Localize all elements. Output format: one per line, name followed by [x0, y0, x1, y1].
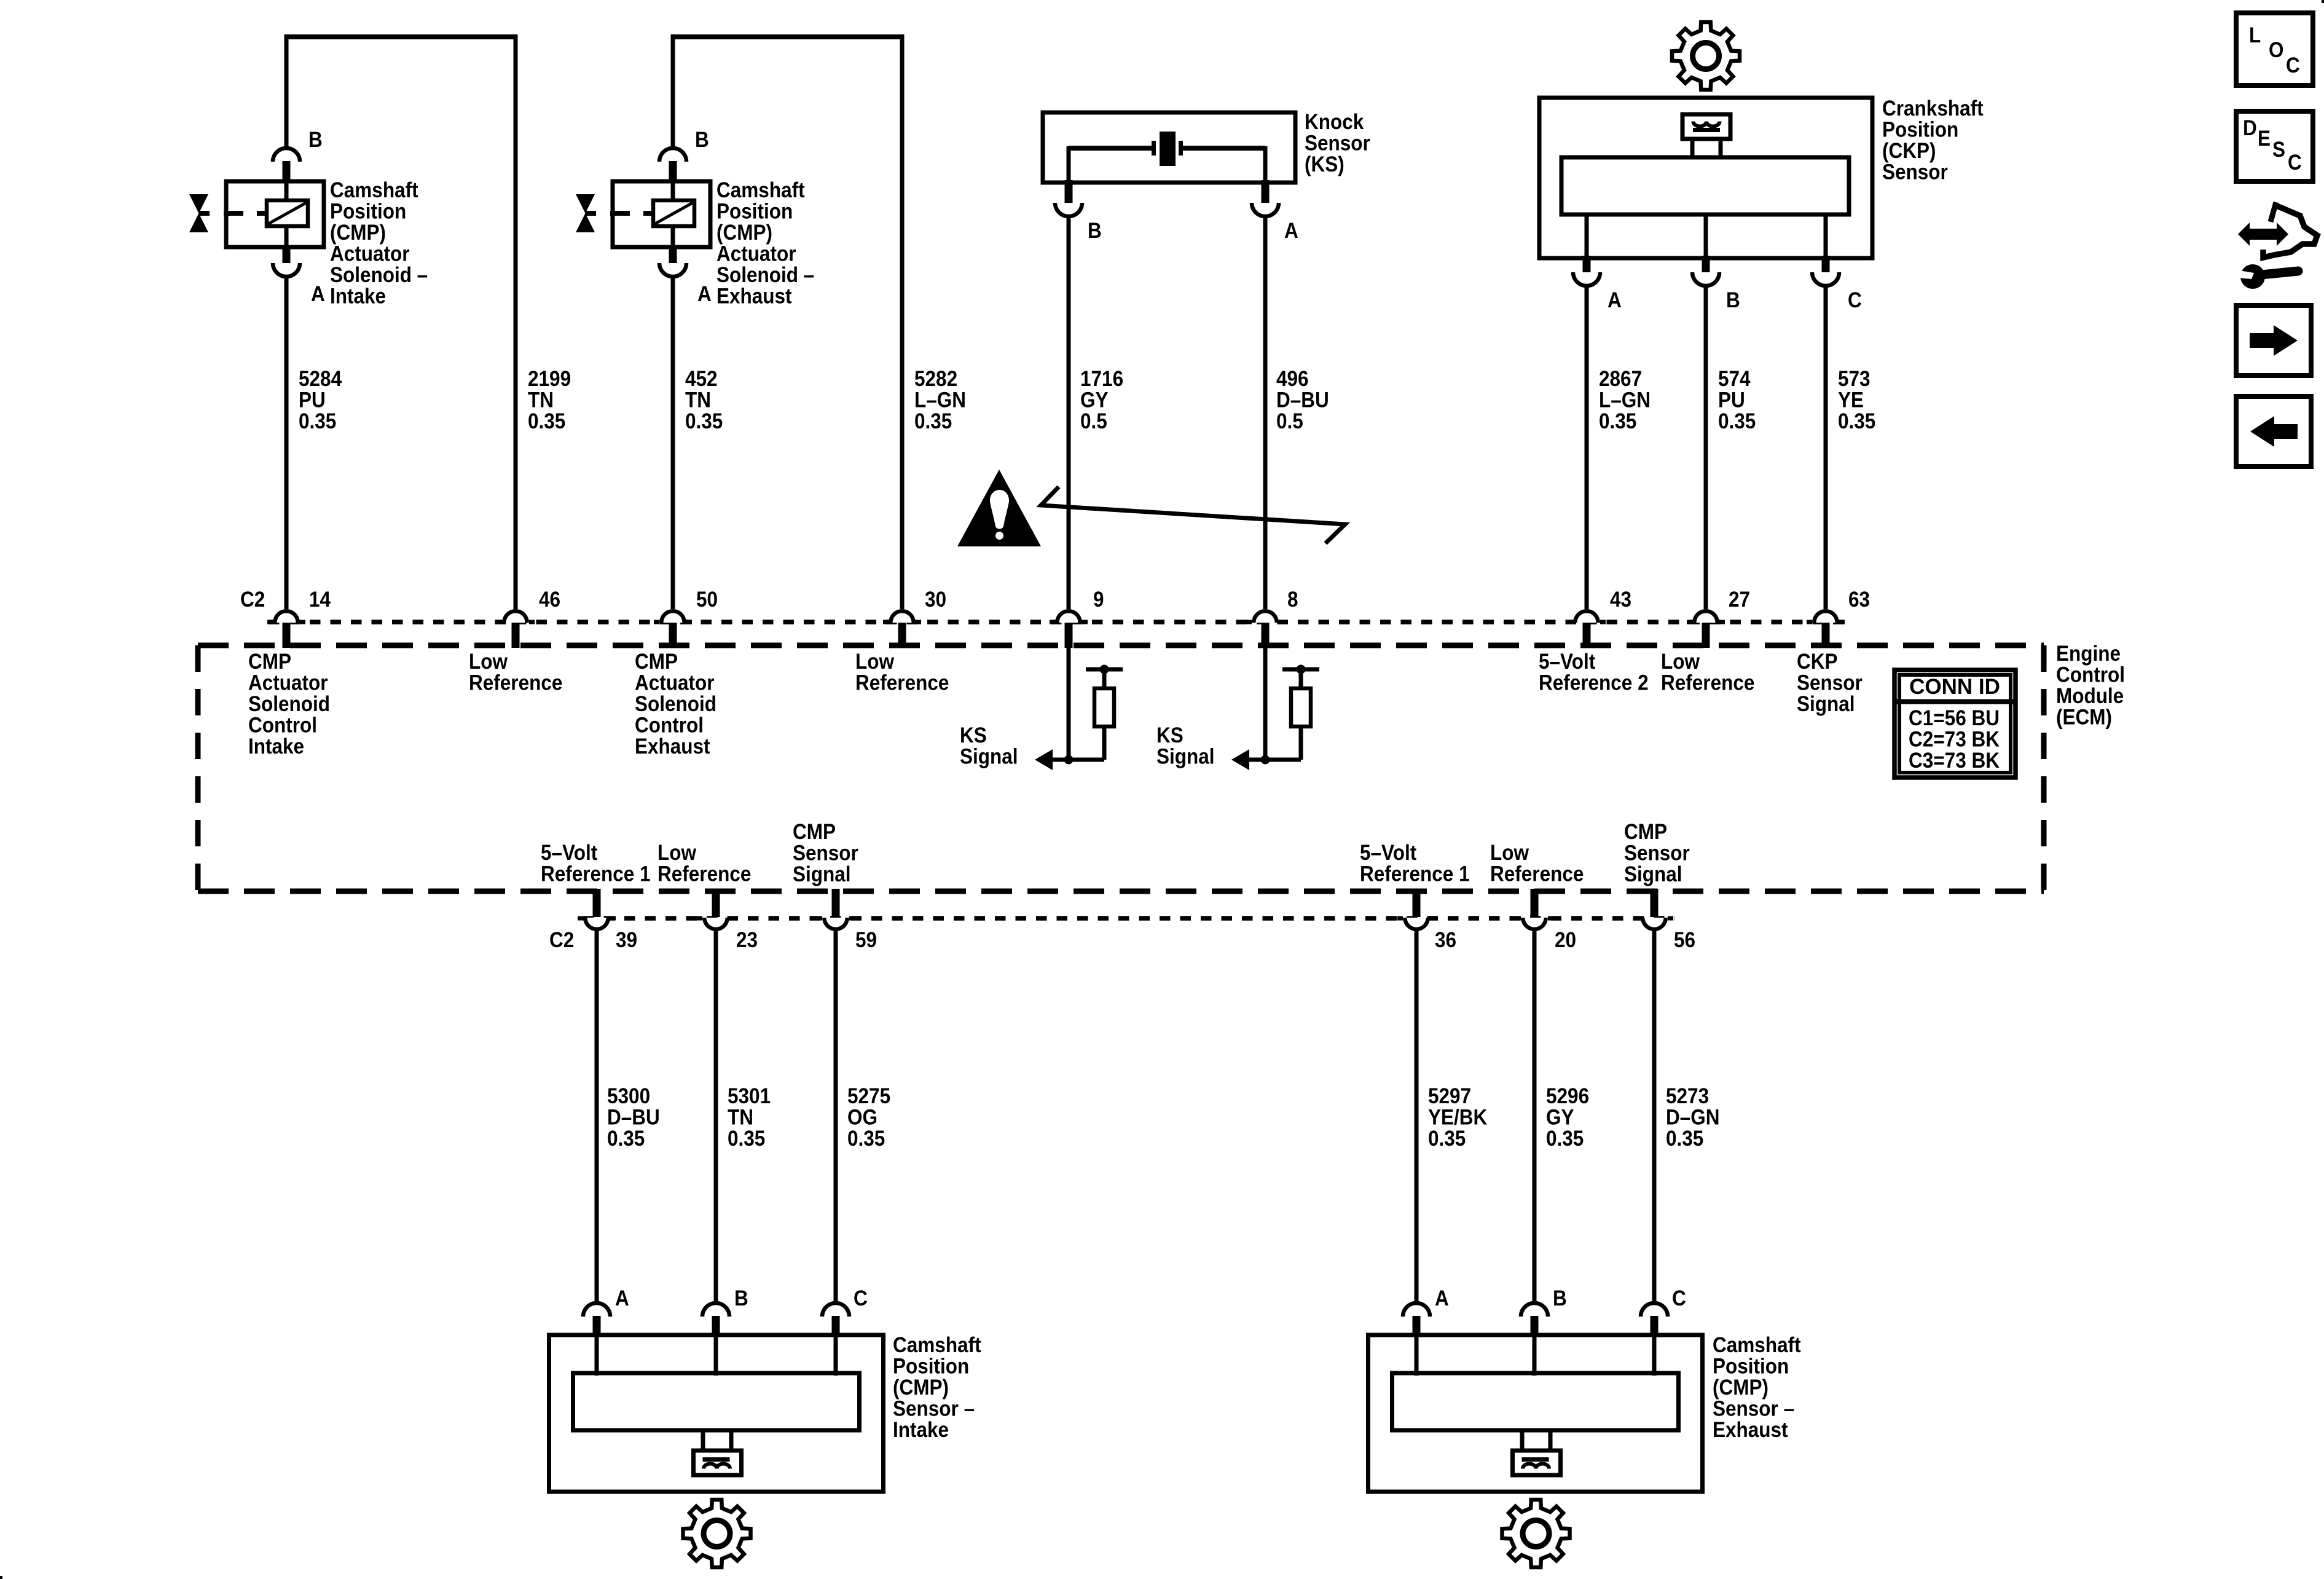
svg-text:Camshaft: Camshaft	[716, 178, 805, 202]
ECM bias rail pin 9	[1086, 667, 1123, 672]
svg-text:Control: Control	[635, 714, 704, 738]
CKP connector squiggle	[1694, 122, 1720, 127]
pin stub A CKP sensor	[1583, 256, 1591, 272]
label engine control module	[2056, 642, 2125, 730]
CMP sensor intake pin label C	[854, 1286, 868, 1310]
pin stub A solenoid intake	[283, 245, 291, 263]
pin stub A solenoid exhaust	[669, 245, 677, 263]
svg-text:Sensor: Sensor	[1882, 160, 1948, 184]
CKP sensor lead A	[1585, 216, 1589, 258]
svg-text:0.35: 0.35	[1546, 1127, 1584, 1151]
connector arc pin A knock sensor	[1252, 203, 1279, 216]
wire tag 5301	[728, 1084, 771, 1151]
solenoid intake internal wire	[285, 183, 289, 245]
svg-text:5300: 5300	[607, 1084, 650, 1108]
svg-text:CMP: CMP	[248, 650, 291, 674]
svg-text:C2=73 BK: C2=73 BK	[1909, 728, 2000, 752]
ECM pin 50 number	[696, 588, 718, 612]
label camshaft position solenoid Intake	[330, 178, 428, 309]
svg-text:C: C	[1672, 1286, 1686, 1310]
pin stub C CKP sensor	[1822, 256, 1830, 272]
svg-text:Signal: Signal	[960, 745, 1018, 769]
ECM pin 59 number	[855, 928, 877, 952]
svg-text:O: O	[2269, 38, 2284, 62]
wire 496 KS signal A	[1263, 215, 1268, 609]
ECM pin 36 stub	[1413, 889, 1421, 917]
ECM pin 50 stub	[669, 623, 677, 648]
CMP sensor intake pin label B	[734, 1286, 748, 1310]
crankshaft position sensor box	[1539, 98, 1872, 258]
ECM pin 20 number	[1555, 928, 1576, 952]
svg-text:PU: PU	[299, 388, 326, 412]
svg-text:(ECM): (ECM)	[2056, 706, 2112, 730]
label CMP actuator solenoid control exhaust	[635, 650, 716, 758]
ECM pin 39 stub	[593, 889, 601, 917]
svg-text:(KS): (KS)	[1305, 152, 1345, 176]
ECM dashed border left	[195, 645, 201, 891]
pin stub A knock sensor	[1262, 180, 1270, 203]
pin label B solenoid exhaust	[695, 128, 709, 152]
CMP sensor intake connector element box	[694, 1451, 742, 1475]
svg-text:C3=73 BK: C3=73 BK	[1909, 749, 2000, 773]
svg-text:5282: 5282	[914, 367, 957, 391]
pin stub B CKP sensor	[1702, 256, 1710, 272]
svg-text:Position: Position	[716, 200, 793, 224]
svg-text:B: B	[1726, 288, 1740, 312]
CONN ID table box	[1894, 670, 2016, 778]
solenoid exhaust valve symbol	[576, 194, 595, 232]
junction dot node pin 8	[1261, 755, 1270, 765]
ECM pin 56 number	[1674, 928, 1695, 952]
svg-text:B: B	[734, 1286, 748, 1310]
svg-text:B: B	[695, 128, 709, 152]
svg-text:Reference 1: Reference 1	[541, 862, 651, 886]
svg-text:L: L	[2249, 23, 2261, 47]
label low reference 20	[1490, 841, 1584, 886]
label KS signal pin 9	[960, 723, 1018, 769]
ECM pin 27 stub	[1702, 623, 1710, 648]
CMP sensor intake lead A	[595, 1335, 599, 1376]
label crankshaft position sensor	[1882, 96, 1984, 184]
wire tag 5284	[299, 367, 342, 433]
svg-text:Sensor –: Sensor –	[893, 1397, 975, 1421]
ECM pin 9 connector arc	[1050, 609, 1088, 623]
svg-text:TN: TN	[728, 1106, 753, 1130]
ECM bias rail pin 8	[1282, 667, 1319, 672]
svg-text:39: 39	[616, 928, 637, 952]
svg-text:Solenoid –: Solenoid –	[716, 263, 814, 287]
ECM pin 36 number	[1435, 928, 1456, 952]
CMP sensor exhaust stub B	[1531, 1316, 1539, 1337]
wire tag 574	[1718, 367, 1756, 433]
ECM pin 14 connector arc	[267, 609, 305, 623]
wire tag 1716	[1080, 367, 1123, 433]
svg-text:14: 14	[309, 588, 331, 612]
gear icon crankshaft	[1672, 22, 1740, 90]
ECM pin 59 connector arc	[817, 918, 855, 931]
pin label A solenoid intake	[311, 282, 325, 306]
wire 5275 OG	[834, 930, 838, 1304]
ECM C2 connector line row1	[269, 620, 1845, 624]
svg-text:Actuator: Actuator	[248, 671, 328, 695]
svg-text:Signal: Signal	[793, 862, 851, 886]
solenoid exhaust internal wire	[671, 183, 675, 245]
ECM pin 27 connector arc	[1687, 609, 1725, 623]
label low reference 27	[1661, 650, 1754, 695]
pin label B solenoid intake	[308, 128, 323, 152]
svg-text:Reference 1: Reference 1	[1360, 862, 1470, 886]
junction dot rail pin 8	[1297, 665, 1306, 674]
svg-text:Solenoid: Solenoid	[635, 692, 716, 716]
svg-text:D: D	[2243, 116, 2257, 140]
svg-text:5273: 5273	[1666, 1084, 1709, 1108]
svg-text:0.35: 0.35	[299, 409, 336, 433]
svg-text:Low: Low	[1490, 841, 1529, 865]
CMP sensor intake stub C	[832, 1316, 840, 1337]
ECM pin 56 connector arc	[1635, 918, 1673, 931]
svg-text:50: 50	[696, 588, 718, 612]
svg-text:9: 9	[1093, 588, 1104, 612]
svg-text:574: 574	[1718, 367, 1751, 391]
CMP sensor exhaust arc pin C	[1641, 1303, 1668, 1317]
svg-text:(CMP): (CMP)	[716, 221, 772, 245]
pin label C CKP sensor	[1848, 288, 1862, 312]
wire tag 5275	[847, 1084, 890, 1151]
CKP connector bar	[1693, 128, 1720, 132]
gear icon CMP intake	[683, 1500, 751, 1567]
wire 452 solenoid exhaust control	[671, 275, 675, 609]
svg-text:Actuator: Actuator	[330, 242, 410, 266]
svg-text:Exhaust: Exhaust	[635, 734, 710, 758]
svg-text:CKP: CKP	[1797, 650, 1838, 674]
ECM pin 56 stub	[1651, 889, 1659, 917]
camshaft position sensor Intake box	[549, 1335, 884, 1492]
ECM pin 23 number	[736, 928, 758, 952]
svg-text:Reference 2: Reference 2	[1539, 671, 1649, 695]
svg-text:36: 36	[1435, 928, 1456, 952]
label CMP sensor signal 59	[793, 820, 858, 886]
svg-text:Signal: Signal	[1624, 862, 1682, 886]
ECM pin 20 stub	[1531, 889, 1539, 917]
connector arc pin A CKP sensor	[1573, 272, 1600, 286]
CMP sensor exhaust lead C	[1652, 1335, 1657, 1376]
wire solenoid exhaust pin B drop	[671, 34, 675, 150]
svg-text:OG: OG	[847, 1106, 877, 1130]
wire tag 5282	[914, 367, 966, 433]
wire tag 452	[685, 367, 723, 433]
svg-text:5297: 5297	[1428, 1084, 1471, 1108]
label camshaft position sensor Intake	[893, 1333, 981, 1442]
svg-text:23: 23	[736, 928, 758, 952]
svg-text:Reference: Reference	[855, 671, 949, 695]
svg-text:Solenoid –: Solenoid –	[330, 263, 428, 287]
CKP sensor lead B	[1704, 216, 1708, 258]
svg-text:0.35: 0.35	[1838, 409, 1875, 433]
svg-text:Reference: Reference	[658, 862, 751, 886]
KS signal arrow pin 8	[1231, 749, 1265, 770]
CMP sensor intake stub A	[593, 1316, 601, 1337]
solenoid exhaust coil	[653, 200, 694, 226]
wire 5282 low reference solenoid exhaust	[900, 34, 905, 609]
CONN ID entries	[1909, 706, 2000, 773]
label low reference 30	[855, 650, 949, 695]
ECM pin 14 stub	[283, 623, 291, 648]
svg-text:C1=56 BU: C1=56 BU	[1909, 706, 2000, 730]
solenoid exhaust valve link dashes	[585, 211, 653, 216]
svg-text:C: C	[1848, 288, 1862, 312]
wire 5273 D–GN	[1652, 930, 1657, 1304]
ECM pin 23 connector arc	[697, 918, 735, 931]
knock sensor box	[1043, 112, 1295, 183]
connector arc pin B knock sensor	[1055, 203, 1082, 216]
svg-text:C2: C2	[240, 588, 265, 612]
svg-text:KS: KS	[960, 723, 987, 747]
connector arc pin A solenoid exhaust	[659, 263, 686, 277]
label low reference 23	[658, 841, 751, 886]
solenoid intake valve symbol	[189, 194, 208, 232]
ECM pin 43 number	[1610, 588, 1631, 612]
svg-text:5–Volt: 5–Volt	[1360, 841, 1417, 865]
wire tag 5296	[1546, 1084, 1589, 1151]
ECM pin 50 connector arc	[654, 609, 692, 623]
svg-text:Sensor: Sensor	[1624, 841, 1690, 865]
svg-text:C: C	[854, 1286, 868, 1310]
svg-text:Reference: Reference	[1490, 862, 1584, 886]
CMP sensor intake lead B	[714, 1335, 718, 1376]
svg-text:63: 63	[1848, 588, 1870, 612]
svg-text:20: 20	[1555, 928, 1576, 952]
warning symbol triangle	[957, 470, 1041, 546]
svg-text:Intake: Intake	[330, 285, 386, 309]
wire 573 CKP signal	[1824, 285, 1828, 609]
svg-text:0.35: 0.35	[1599, 409, 1636, 433]
sidebar LOC box	[2236, 13, 2313, 85]
svg-text:TN: TN	[685, 388, 711, 412]
label knock sensor	[1305, 110, 1370, 176]
svg-text:A: A	[1435, 1286, 1449, 1310]
ECM pin 63 connector arc	[1807, 609, 1845, 623]
svg-text:E: E	[2258, 127, 2271, 151]
svg-text:S: S	[2272, 138, 2285, 162]
connector arc pin B solenoid exhaust	[659, 148, 686, 162]
CKP connector neck	[1692, 139, 1721, 159]
svg-text:Control: Control	[248, 714, 317, 738]
corner mark top right	[2322, 0, 2324, 3]
CMP sensor exhaust lead A	[1415, 1335, 1419, 1376]
svg-text:2199: 2199	[528, 367, 571, 391]
svg-text:0.35: 0.35	[728, 1127, 765, 1151]
CMP sensor intake lead C	[834, 1335, 838, 1376]
CKP sensor inner rectangle	[1561, 157, 1849, 215]
CMP sensor intake inner rectangle	[573, 1373, 860, 1430]
CMP sensor intake pin label A	[615, 1286, 629, 1310]
wire tag 573	[1838, 367, 1875, 433]
svg-text:(CMP): (CMP)	[893, 1376, 949, 1400]
ECM pin 30 stub	[898, 623, 906, 648]
svg-text:L–GN: L–GN	[914, 388, 966, 412]
wire 5301 TN	[714, 930, 718, 1304]
svg-text:5275: 5275	[847, 1084, 890, 1108]
sidebar next arrow box	[2236, 305, 2311, 376]
solenoid intake coil	[267, 200, 308, 226]
ECM pin 46 connector arc	[497, 609, 535, 623]
svg-text:5296: 5296	[1546, 1084, 1589, 1108]
svg-text:0.35: 0.35	[685, 409, 723, 433]
ECM pin 63 number	[1848, 588, 1870, 612]
CMP sensor exhaust connector squiggle	[1523, 1464, 1549, 1469]
svg-text:CMP: CMP	[793, 820, 836, 844]
ECM pin 20 connector arc	[1515, 918, 1553, 931]
ECM dashed border bottom	[198, 889, 2044, 894]
svg-text:Position: Position	[1713, 1355, 1789, 1379]
svg-text:Camshaft: Camshaft	[330, 178, 418, 202]
wire 574 low reference	[1704, 285, 1708, 609]
svg-text:Crankshaft: Crankshaft	[1882, 96, 1984, 120]
svg-text:5301: 5301	[728, 1084, 771, 1108]
wire solenoid intake pin B drop	[285, 34, 289, 150]
svg-text:A: A	[1608, 288, 1622, 312]
wire tag 5273	[1666, 1084, 1720, 1151]
ECM pin 39 connector arc	[578, 918, 616, 931]
svg-text:A: A	[697, 282, 712, 306]
ECM pin 8 stub	[1262, 623, 1270, 648]
label 5-volt reference 1 left	[541, 841, 651, 886]
resistor KS pin 8	[1291, 669, 1311, 760]
svg-text:0.35: 0.35	[607, 1127, 645, 1151]
CMP sensor exhaust arc pin B	[1521, 1303, 1548, 1317]
corner mark bottom left	[0, 1576, 2, 1579]
label C2 row1	[240, 588, 265, 612]
ECM pin 23 stub	[712, 889, 720, 917]
label KS signal pin 8	[1156, 723, 1215, 769]
CMP sensor exhaust stub C	[1651, 1316, 1659, 1337]
svg-text:Knock: Knock	[1305, 110, 1364, 134]
CMP sensor exhaust stub A	[1413, 1316, 1421, 1337]
svg-text:(CMP): (CMP)	[330, 221, 386, 245]
svg-text:Sensor: Sensor	[1797, 671, 1863, 695]
svg-text:2867: 2867	[1599, 367, 1642, 391]
label camshaft position sensor Exhaust	[1713, 1333, 1801, 1442]
svg-text:Actuator: Actuator	[716, 242, 796, 266]
svg-text:1716: 1716	[1080, 367, 1123, 391]
svg-text:CONN ID: CONN ID	[1909, 675, 2000, 699]
ECM pin 46 stub	[512, 623, 520, 648]
ECM pin 9 stub	[1065, 623, 1073, 648]
svg-text:56: 56	[1674, 928, 1695, 952]
svg-text:GY: GY	[1080, 388, 1109, 412]
svg-text:452: 452	[685, 367, 718, 391]
pin label A solenoid exhaust	[697, 282, 712, 306]
label low reference 46	[469, 650, 562, 695]
svg-text:Solenoid: Solenoid	[248, 692, 330, 716]
CMP sensor intake connector bar	[703, 1457, 730, 1462]
wire tag 2199	[528, 367, 571, 433]
wire 2867 5-volt ref 2	[1585, 285, 1589, 609]
connector arc pin A solenoid intake	[273, 263, 300, 277]
wire 5284 solenoid intake control	[285, 275, 289, 609]
CONN ID title	[1909, 675, 2000, 699]
wire tag 5300	[607, 1084, 660, 1151]
CMP sensor exhaust arc pin A	[1403, 1303, 1430, 1317]
svg-text:Sensor: Sensor	[1305, 132, 1370, 156]
svg-text:0.35: 0.35	[528, 409, 565, 433]
ECM dashed border right	[2041, 645, 2047, 891]
CMP sensor exhaust lead B	[1533, 1335, 1537, 1376]
ECM pin 8 number	[1287, 588, 1298, 612]
junction dot rail pin 9	[1100, 665, 1109, 674]
connector arc pin B CKP sensor	[1692, 272, 1719, 286]
svg-text:573: 573	[1838, 367, 1871, 391]
svg-text:PU: PU	[1718, 388, 1745, 412]
camshaft position actuator solenoid Intake box	[226, 181, 324, 247]
svg-text:Position: Position	[893, 1355, 969, 1379]
pin label B CKP sensor	[1726, 288, 1740, 312]
svg-text:Camshaft: Camshaft	[893, 1333, 981, 1357]
svg-text:Control: Control	[2056, 663, 2125, 687]
svg-text:D–BU: D–BU	[1276, 388, 1329, 412]
ECM pin 43 stub	[1583, 623, 1591, 648]
ECM KS wire pin 9	[1067, 647, 1071, 760]
svg-text:C: C	[2286, 53, 2300, 77]
CMP sensor exhaust connector bar	[1522, 1457, 1549, 1462]
svg-text:TN: TN	[528, 388, 554, 412]
camshaft position sensor Exhaust box	[1368, 1335, 1703, 1492]
ECM pin 63 stub	[1822, 623, 1830, 648]
wire 2199 low reference solenoid intake	[514, 34, 518, 609]
svg-text:0.35: 0.35	[1718, 409, 1756, 433]
svg-text:Low: Low	[1661, 650, 1700, 674]
label 5-volt reference 2	[1539, 650, 1649, 695]
svg-text:Exhaust: Exhaust	[1713, 1418, 1788, 1442]
label CMP actuator solenoid control intake	[248, 650, 330, 758]
ECM C2 connector line row2	[583, 916, 1674, 921]
svg-text:CMP: CMP	[1624, 820, 1667, 844]
ECM pin 9 number	[1093, 588, 1104, 612]
svg-text:D–BU: D–BU	[607, 1106, 660, 1130]
gear icon CMP exhaust	[1502, 1500, 1570, 1567]
svg-text:Engine: Engine	[2056, 642, 2121, 666]
svg-text:Reference: Reference	[469, 671, 562, 695]
solenoid intake valve link dashes	[198, 211, 267, 216]
svg-text:0.5: 0.5	[1080, 409, 1107, 433]
svg-text:Position: Position	[330, 200, 406, 224]
CMP sensor intake arc pin B	[702, 1303, 729, 1317]
label 5-volt reference 1 right	[1360, 841, 1470, 886]
svg-text:C: C	[2288, 151, 2302, 175]
KS signal node line pin 9	[1069, 758, 1104, 762]
CMP sensor intake stub B	[712, 1316, 720, 1337]
svg-text:KS: KS	[1156, 723, 1184, 747]
KS signal arrow pin 9	[1035, 749, 1069, 770]
svg-text:59: 59	[855, 928, 877, 952]
junction dot node pin 9	[1064, 755, 1074, 765]
CMP sensor intake arc pin A	[583, 1303, 610, 1317]
wire 1716 KS signal B	[1067, 215, 1071, 609]
wire 5297 YE/BK	[1415, 930, 1419, 1304]
svg-text:5–Volt: 5–Volt	[1539, 650, 1596, 674]
CKP connector element box	[1682, 114, 1730, 139]
ECM pin 8 connector arc	[1246, 609, 1284, 623]
svg-text:Low: Low	[658, 841, 697, 865]
CKP sensor lead C	[1824, 216, 1828, 258]
label camshaft position solenoid Exhaust	[716, 178, 814, 309]
wire 5300 D–BU	[595, 930, 599, 1304]
svg-text:0.5: 0.5	[1276, 409, 1303, 433]
svg-text:Actuator: Actuator	[635, 671, 715, 695]
ECM pin 36 connector arc	[1397, 918, 1435, 931]
svg-text:Intake: Intake	[893, 1418, 949, 1442]
svg-text:496: 496	[1276, 367, 1309, 391]
